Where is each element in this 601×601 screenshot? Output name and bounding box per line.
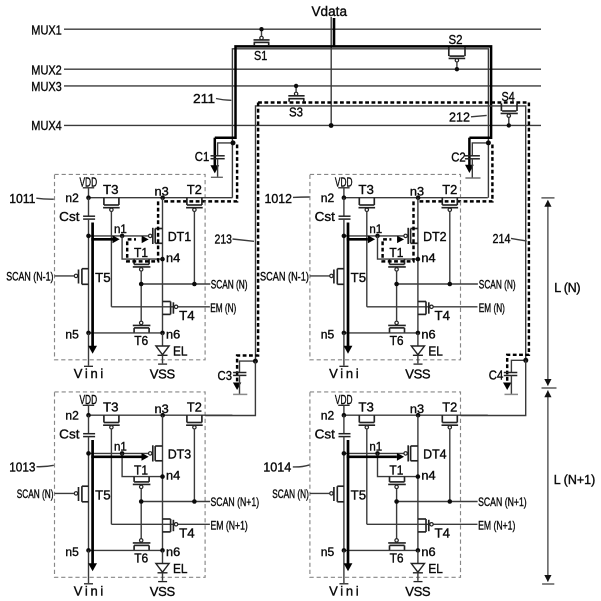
node n2 1013 <box>86 413 91 418</box>
transistor S1 <box>253 42 255 45</box>
svg-text:C2: C2 <box>451 150 466 165</box>
thick signal arrow n1 1012 <box>347 238 368 241</box>
wire n2-n3 row 1013 <box>89 414 233 416</box>
pixel block 1012 <box>310 174 461 359</box>
svg-text:T3: T3 <box>103 182 119 197</box>
node n4 1011 <box>160 257 165 262</box>
node n3 1014 <box>416 413 421 418</box>
svg-text:n4: n4 <box>166 253 181 265</box>
wire n3-n4-n6 1012 <box>417 198 419 333</box>
svg-text:DT1: DT1 <box>168 229 192 244</box>
transistor S2 <box>448 47 450 56</box>
drive transistor DT4 1014 <box>411 445 418 447</box>
wire n1-T1-n4 1011 <box>122 236 162 259</box>
wire n1-T1-n4 1012 <box>378 236 418 259</box>
wire n1 1014 <box>344 452 404 454</box>
thick signal arrow n1 1014 <box>347 455 397 458</box>
dimension line L(N) <box>541 197 554 199</box>
svg-text:T4: T4 <box>435 525 451 540</box>
svg-text:1012: 1012 <box>265 191 293 206</box>
node n5 1012 <box>342 331 347 336</box>
node n3 1011 <box>160 195 165 200</box>
svg-text:n6: n6 <box>166 329 180 341</box>
svg-text:n6: n6 <box>166 547 180 559</box>
svg-text:VSS: VSS <box>405 366 431 381</box>
wire n2-n3 row 1011 <box>89 197 233 199</box>
capacitor C2 <box>472 143 488 156</box>
svg-text:213: 213 <box>215 232 233 247</box>
node n4 1014 <box>416 474 421 479</box>
svg-text:Vdata: Vdata <box>312 4 348 19</box>
svg-text:S4: S4 <box>502 89 515 104</box>
thick signal arrow n1 1013 <box>91 455 141 458</box>
wire n5-n6 1012 <box>344 332 418 334</box>
svg-text:VDD: VDD <box>335 392 353 407</box>
svg-text:VDD: VDD <box>80 392 98 407</box>
net 212 arrow into C2 <box>468 138 471 166</box>
svg-text:VDD: VDD <box>80 174 98 189</box>
svg-text:S3: S3 <box>289 104 303 119</box>
capacitor Cst 1013 <box>88 415 90 434</box>
svg-text:L (N+1): L (N+1) <box>554 473 596 487</box>
transistor T1 1013 <box>133 477 135 482</box>
drive transistor DT1 1011 <box>155 228 162 230</box>
thick signal arrow vertical 1011 <box>91 223 94 347</box>
svg-text:SCAN (N): SCAN (N) <box>272 487 309 501</box>
wire SCAN row 1013 <box>141 501 210 503</box>
transistor T5 1012 <box>337 268 344 270</box>
svg-text:T4: T4 <box>179 525 195 540</box>
svg-text:T2: T2 <box>187 400 202 415</box>
svg-text:SCAN (N+1): SCAN (N+1) <box>478 495 527 509</box>
drive transistor DT2 1012 <box>411 228 418 230</box>
wire SCAN row 1011 <box>141 283 210 285</box>
svg-text:VSS: VSS <box>150 366 176 381</box>
transistor T1 1011 <box>133 259 135 264</box>
svg-text:1011: 1011 <box>9 191 35 206</box>
junction dot net213/C3 <box>253 359 258 364</box>
MUX4 line <box>64 124 541 126</box>
wire EM row 1011 <box>111 306 209 308</box>
svg-text:C1: C1 <box>195 149 210 164</box>
MUX1 line <box>64 28 541 30</box>
svg-text:211: 211 <box>193 91 215 106</box>
node n1 1014 <box>375 451 380 456</box>
junction dot Vdata/MUX4 <box>329 123 334 128</box>
node n1 1011 <box>120 234 125 239</box>
wire SCAN row 1012 <box>397 283 478 285</box>
svg-text:T2: T2 <box>187 182 202 197</box>
wire n5-n6 1013 <box>89 549 163 551</box>
transistor T6 1012 <box>389 328 391 333</box>
svg-text:MUX2: MUX2 <box>31 63 62 78</box>
node n1 1012 <box>375 234 380 239</box>
svg-text:T5: T5 <box>351 270 367 285</box>
transistor T3 1012 <box>358 198 360 205</box>
svg-text:EL: EL <box>173 344 188 359</box>
svg-text:T1: T1 <box>389 245 403 260</box>
svg-text:DT4: DT4 <box>423 447 447 462</box>
svg-text:L (N): L (N) <box>554 281 580 295</box>
capacitor C3 <box>240 361 256 372</box>
wire n5-n6 1011 <box>89 332 163 334</box>
thick signal arrow vertical 1013 <box>91 440 94 564</box>
wire EM row 1012 <box>367 306 478 308</box>
svg-text:Cst: Cst <box>59 427 80 442</box>
svg-text:MUX3: MUX3 <box>31 79 62 94</box>
net 213 dashed vertical <box>237 103 258 384</box>
EL diode 1013 <box>162 550 164 563</box>
net 214 dashed vertical <box>507 103 529 384</box>
wire n3-n4-n6 1014 <box>417 415 419 550</box>
transistor T4 1014 <box>418 518 426 520</box>
node n6 1011 <box>160 331 165 336</box>
svg-text:n3: n3 <box>410 186 424 198</box>
net 214a dashed into pixel 1012 n3 <box>418 145 492 202</box>
net 211 arrow into C1 <box>214 138 217 166</box>
transistor T2 1013 <box>186 415 188 422</box>
thick signal arrow n1 1011 <box>91 238 112 241</box>
svg-text:n3: n3 <box>155 186 169 198</box>
svg-text:n3: n3 <box>410 404 424 416</box>
svg-text:S1: S1 <box>254 48 267 63</box>
svg-text:T1: T1 <box>134 245 148 260</box>
EL diode 1014 <box>417 550 419 563</box>
svg-text:n5: n5 <box>65 329 78 341</box>
net 211/212 thick solid path <box>215 46 491 137</box>
svg-text:n1: n1 <box>369 441 382 453</box>
node n2 1012 <box>342 195 347 200</box>
svg-text:MUX1: MUX1 <box>31 23 62 38</box>
svg-text:EM (N): EM (N) <box>479 301 505 315</box>
node n6 1012 <box>416 331 421 336</box>
svg-text:n1: n1 <box>114 224 127 236</box>
svg-text:214: 214 <box>493 231 511 246</box>
svg-text:n2: n2 <box>65 193 78 205</box>
wire SCAN row 1014 <box>397 501 478 503</box>
svg-text:T5: T5 <box>95 270 111 285</box>
wire EM row 1013 <box>111 523 209 525</box>
svg-text:SCAN (N-1): SCAN (N-1) <box>6 270 53 284</box>
svg-text:n5: n5 <box>321 547 334 559</box>
svg-text:n5: n5 <box>65 547 78 559</box>
transistor T3 1011 <box>103 198 105 205</box>
node n2 1011 <box>86 195 91 200</box>
svg-text:T5: T5 <box>95 487 111 502</box>
thick signal arrow vertical 1014 <box>347 440 350 564</box>
svg-text:n4: n4 <box>421 253 436 265</box>
svg-text:T2: T2 <box>442 182 457 197</box>
Vini terminal 1013 <box>88 550 90 583</box>
svg-text:EM (N+1): EM (N+1) <box>478 519 515 533</box>
junction dot net211/C1 <box>231 140 236 145</box>
node n4 1013 <box>160 474 165 479</box>
svg-text:T2: T2 <box>442 400 457 415</box>
svg-text:DT2: DT2 <box>423 229 447 244</box>
wire n3-n4-n6 1013 <box>162 415 164 550</box>
dashed compensation path 1012 <box>383 201 414 261</box>
svg-text:VSS: VSS <box>150 584 176 599</box>
Vdata thick stub <box>333 18 336 48</box>
capacitor Cst 1014 <box>343 415 345 434</box>
junction dot net212/C2 <box>486 140 491 145</box>
svg-text:212: 212 <box>449 109 470 124</box>
svg-text:C3: C3 <box>218 368 233 383</box>
transistor T2 1012 <box>441 198 443 205</box>
pixel block 1011 <box>55 174 206 359</box>
svg-text:VDD: VDD <box>335 174 353 189</box>
svg-text:T4: T4 <box>435 308 451 323</box>
node n3 1013 <box>160 413 165 418</box>
node n1 1013 <box>120 451 125 456</box>
transistor T5 1014 <box>337 485 344 487</box>
transistor T5 1011 <box>82 268 89 270</box>
EL diode 1012 <box>417 333 419 346</box>
transistor T3 1014 <box>358 415 360 422</box>
MUX3 line <box>64 85 541 87</box>
dimension line L(N+1) <box>547 391 549 582</box>
capacitor C4 <box>511 360 525 372</box>
pixel block 1013 <box>55 392 206 577</box>
transistor T6 1014 <box>389 545 391 550</box>
svg-text:EL: EL <box>428 344 443 359</box>
svg-text:MUX4: MUX4 <box>31 118 62 133</box>
wire n1 1012 <box>344 235 404 237</box>
pixel block 1014 <box>310 392 461 577</box>
node n6 1014 <box>416 548 421 553</box>
svg-text:T1: T1 <box>134 462 148 477</box>
svg-text:VSS: VSS <box>405 584 431 599</box>
svg-text:1014: 1014 <box>263 460 291 475</box>
svg-text:T6: T6 <box>390 333 404 348</box>
wire net213 down to pixel 1013 <box>205 361 255 415</box>
transistor T5 1013 <box>82 485 89 487</box>
wire EM row 1014 <box>367 523 478 525</box>
net 213a dashed into pixel 1011 n3 <box>163 145 237 202</box>
svg-text:n4: n4 <box>166 470 181 482</box>
svg-text:EM (N): EM (N) <box>210 301 236 315</box>
MUX2 line <box>64 68 541 70</box>
svg-text:Cst: Cst <box>315 427 336 442</box>
svg-text:T3: T3 <box>103 400 119 415</box>
svg-text:DT3: DT3 <box>168 447 192 462</box>
svg-text:n2: n2 <box>321 193 334 205</box>
junction dot net214/C4 <box>523 358 528 363</box>
svg-text:T6: T6 <box>134 550 148 565</box>
transistor T6 1013 <box>133 545 135 550</box>
wire n3-n4-n6 1011 <box>162 198 164 333</box>
node n6 1013 <box>160 548 165 553</box>
wire: demux output B thin <box>256 106 526 361</box>
transistor T2 1014 <box>441 415 443 422</box>
svg-text:n3: n3 <box>155 404 169 416</box>
wire n2-n3 row 1012 <box>344 197 488 199</box>
transistor T6 1011 <box>133 328 135 333</box>
svg-text:T5: T5 <box>351 487 367 502</box>
svg-text:S2: S2 <box>449 32 463 47</box>
transistor T2 1011 <box>186 198 188 205</box>
node n5 1013 <box>86 548 91 553</box>
svg-text:n5: n5 <box>321 329 334 341</box>
node n4 1012 <box>416 257 421 262</box>
wire n5-n6 1014 <box>344 549 418 551</box>
node n5 1014 <box>342 548 347 553</box>
transistor T4 1013 <box>163 518 171 520</box>
wire net214 down to pixel 1014 <box>461 360 526 415</box>
svg-text:SCAN (N): SCAN (N) <box>479 278 516 292</box>
node n2 1014 <box>342 413 347 418</box>
Vini terminal 1012 <box>343 333 345 366</box>
svg-text:T3: T3 <box>358 400 374 415</box>
wire n1-T1-n4 1013 <box>122 453 162 476</box>
EL diode 1011 <box>162 333 164 346</box>
svg-text:C4: C4 <box>489 367 504 382</box>
svg-text:Cst: Cst <box>59 209 80 224</box>
svg-text:n6: n6 <box>421 547 435 559</box>
svg-text:1013: 1013 <box>9 460 35 475</box>
svg-text:T6: T6 <box>134 333 148 348</box>
svg-text:EL: EL <box>428 561 443 576</box>
Vini terminal 1014 <box>343 550 345 583</box>
drive transistor DT3 1013 <box>155 445 162 447</box>
transistor S4 <box>500 103 502 111</box>
transistor T1 1012 <box>389 259 391 264</box>
svg-text:EL: EL <box>173 561 188 576</box>
wire n1 1013 <box>89 452 149 454</box>
capacitor Cst 1012 <box>343 198 345 217</box>
svg-text:SCAN (N+1): SCAN (N+1) <box>211 495 260 509</box>
svg-text:n1: n1 <box>369 224 382 236</box>
svg-text:n2: n2 <box>321 411 334 423</box>
svg-text:T3: T3 <box>358 182 374 197</box>
svg-text:T4: T4 <box>179 308 195 323</box>
wire n1 1011 <box>89 235 149 237</box>
transistor S3 <box>288 99 290 102</box>
svg-text:SCAN (N): SCAN (N) <box>211 278 248 292</box>
svg-text:n6: n6 <box>421 329 435 341</box>
dashed compensation path 1011 <box>127 201 158 261</box>
capacitor C1 <box>218 143 233 156</box>
node n3 1012 <box>416 195 421 200</box>
net 213/214 dashed top run <box>258 101 529 103</box>
wire: demux output A thin <box>232 49 488 198</box>
wire n1-T1-n4 1014 <box>378 453 418 476</box>
transistor T1 1014 <box>389 477 391 482</box>
Vini terminal 1011 <box>88 333 90 366</box>
svg-text:T6: T6 <box>390 550 404 565</box>
svg-text:EM (N+1): EM (N+1) <box>211 519 248 533</box>
svg-text:n4: n4 <box>421 470 436 482</box>
svg-text:SCAN (N): SCAN (N) <box>17 487 54 501</box>
transistor T3 1013 <box>103 415 105 422</box>
transistor T4 1011 <box>163 301 171 303</box>
transistor T4 1012 <box>418 301 426 303</box>
capacitor Cst 1011 <box>88 198 90 217</box>
svg-text:SCAN (N-1): SCAN (N-1) <box>260 270 309 284</box>
svg-text:T1: T1 <box>389 462 403 477</box>
node n5 1011 <box>86 331 91 336</box>
wire n2-n3 row 1014 <box>344 414 488 416</box>
thick signal arrow vertical 1012 <box>347 223 350 347</box>
svg-text:Cst: Cst <box>315 209 336 224</box>
svg-text:n2: n2 <box>65 411 78 423</box>
svg-text:n1: n1 <box>114 441 127 453</box>
Vdata vertical wire <box>330 17 332 126</box>
